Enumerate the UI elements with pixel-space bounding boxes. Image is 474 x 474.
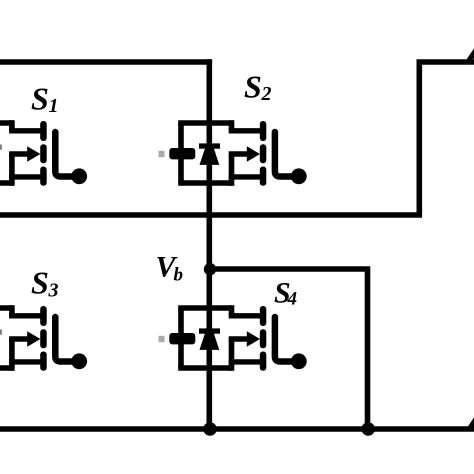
svg-text:b: b (174, 265, 184, 286)
wire Vb branch to S4 drain riser (209, 269, 367, 432)
svg-text:S: S (31, 81, 49, 117)
transistor S1 (MOSFET, left-cropped) (0, 120, 87, 186)
wire top rail left (0, 59, 212, 65)
transistor S4 (MOSFET with body diode) (159, 305, 307, 371)
svg-text:S: S (31, 265, 49, 301)
diode D2 (body diode of S2) (199, 143, 220, 165)
svg-text:2: 2 (261, 83, 272, 105)
wire bottom rail (0, 426, 474, 432)
wire cropped source stub bottom-right (470, 414, 474, 429)
wire mid rail with right riser to top-right rail (0, 62, 474, 215)
diode D4 (body diode of S4) (199, 328, 220, 350)
wire middle vertical branch (207, 59, 213, 432)
svg-text:4: 4 (287, 289, 298, 310)
svg-text:3: 3 (48, 280, 59, 302)
svg-text:S: S (244, 69, 262, 105)
node bottom rail junction dot left (203, 422, 217, 436)
transistor S3 (MOSFET, left-cropped) (0, 305, 87, 371)
node bottom rail junction dot right (361, 422, 375, 436)
svg-text:1: 1 (49, 95, 59, 117)
transistor S2 (MOSFET with body diode) (159, 120, 307, 186)
node Vb junction dot (204, 263, 216, 275)
wire cropped source stub top-right (469, 47, 474, 61)
